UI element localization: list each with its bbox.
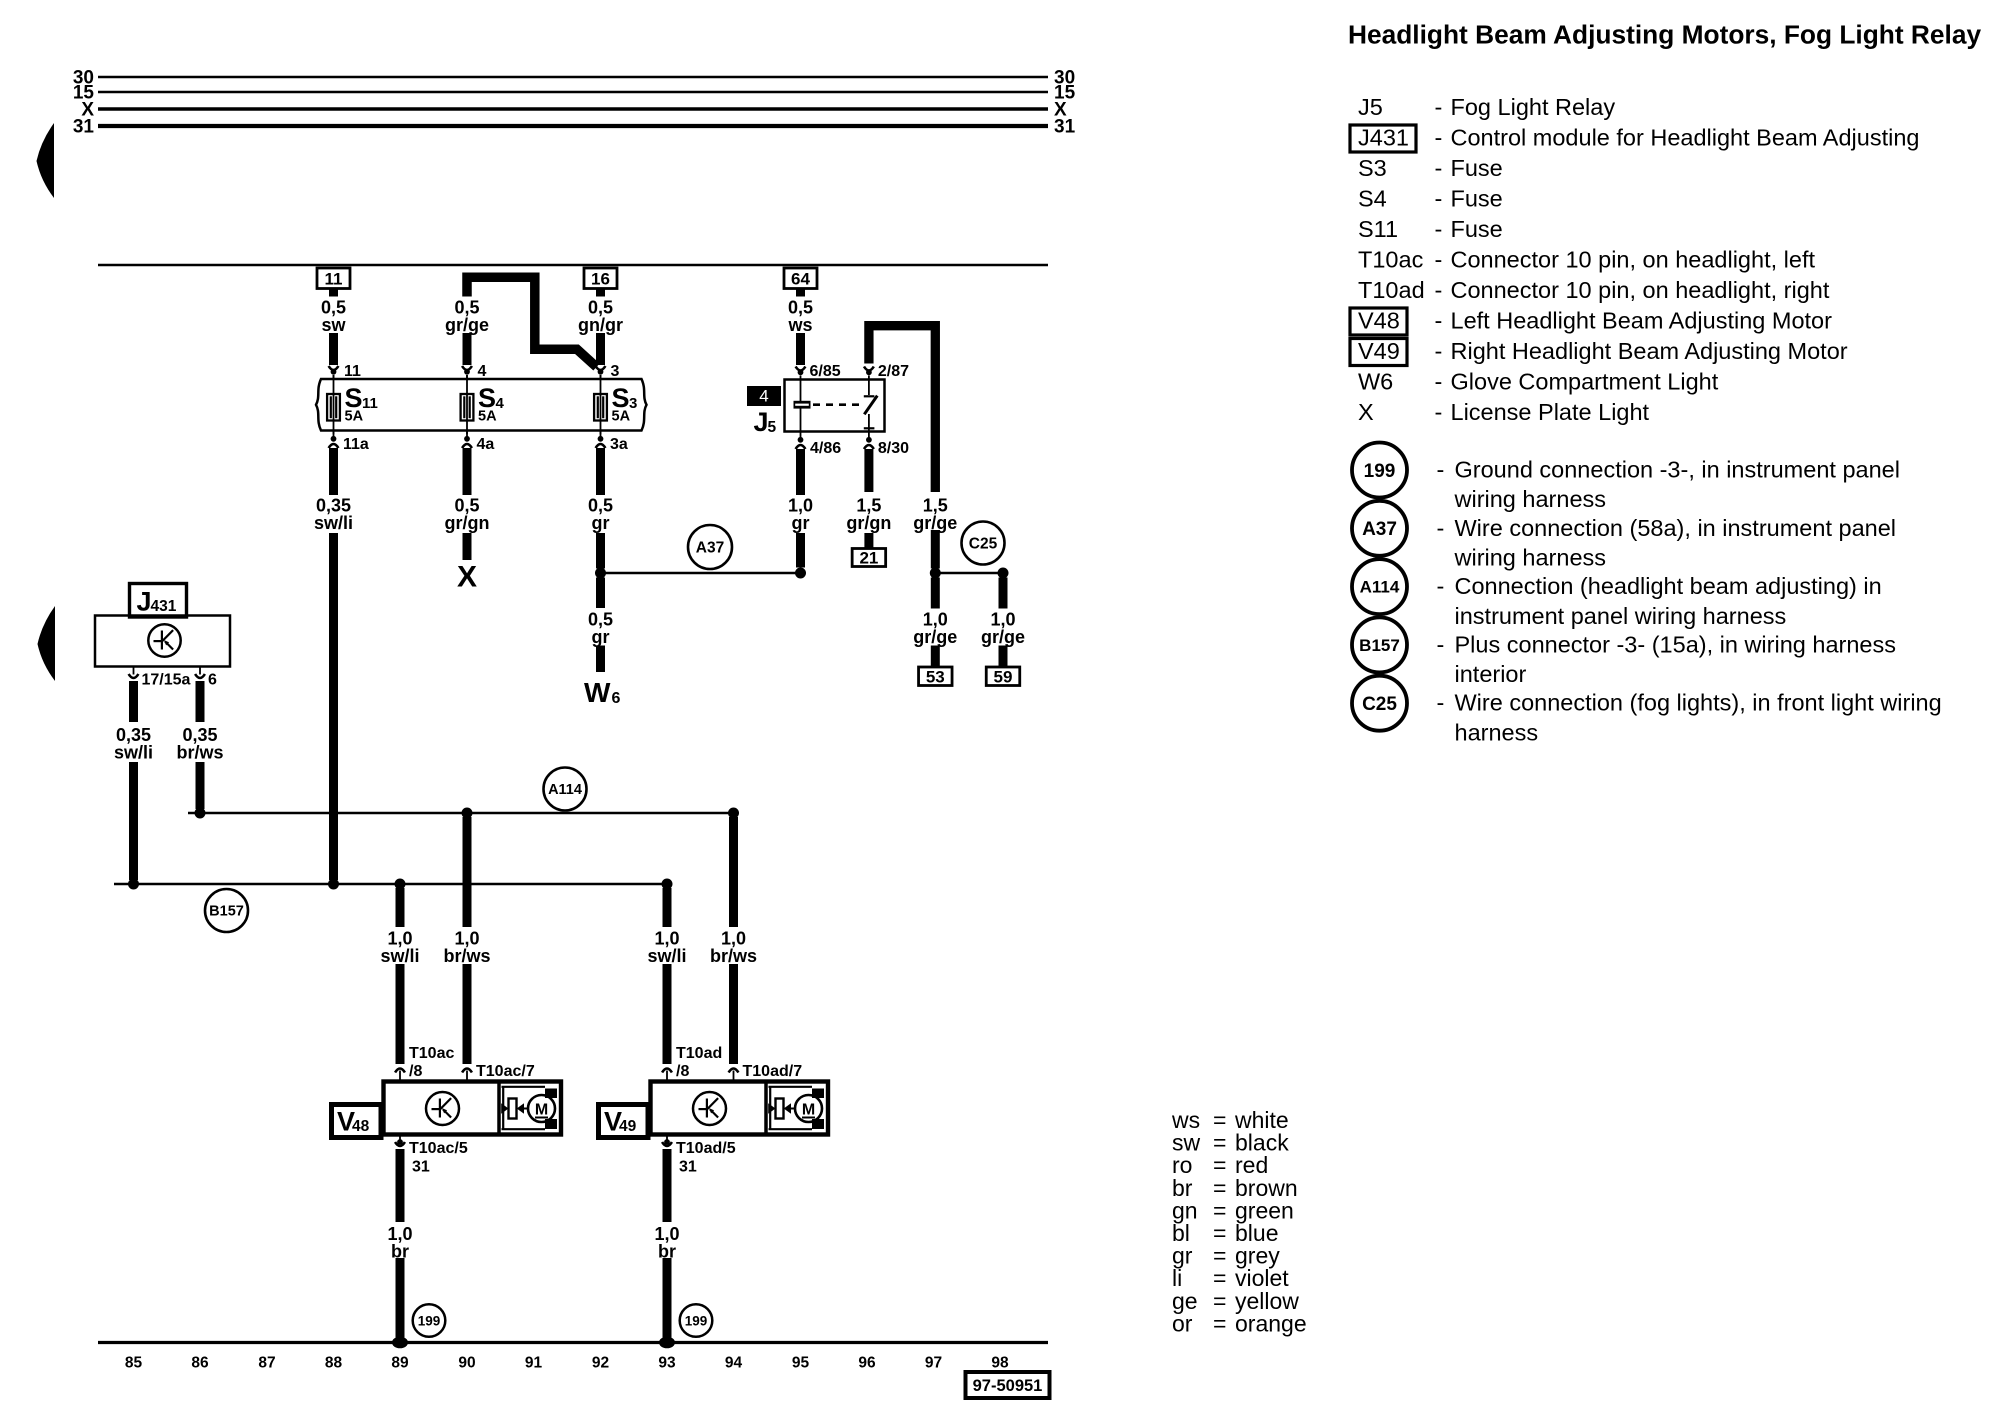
svg-text:S4: S4 bbox=[1358, 186, 1387, 212]
svg-text:89: 89 bbox=[391, 1355, 409, 1372]
svg-text:Wire connection (fog lights),: Wire connection (fog lights), in front l… bbox=[1455, 690, 1942, 716]
svg-text:gr/ge: gr/ge bbox=[981, 627, 1025, 647]
svg-text:S11: S11 bbox=[1358, 216, 1398, 242]
continuation arrow top-left bbox=[37, 123, 55, 198]
wire 0,5 gr/ge with branch to terminal 3 bbox=[467, 277, 597, 367]
svg-text:ws: ws bbox=[787, 315, 812, 335]
terminal 6/85 bbox=[796, 367, 806, 371]
svg-text:64: 64 bbox=[791, 269, 810, 288]
svg-text:11: 11 bbox=[325, 269, 343, 288]
svg-text:199: 199 bbox=[418, 1313, 441, 1328]
terminal 2/87 bbox=[864, 367, 874, 371]
svg-text:Plus connector -3- (15a), in w: Plus connector -3- (15a), in wiring harn… bbox=[1455, 631, 1896, 657]
svg-text:T10ac/7: T10ac/7 bbox=[476, 1063, 535, 1080]
plus connector B157 line bbox=[114, 883, 668, 885]
svg-text:-: - bbox=[1435, 155, 1443, 181]
svg-text:-: - bbox=[1437, 457, 1445, 483]
wire 1,0 sw/li to T10ac/8 bbox=[396, 888, 405, 927]
ground node col for V49 bbox=[659, 1337, 675, 1349]
svg-text:sw: sw bbox=[321, 315, 346, 335]
svg-text:53: 53 bbox=[926, 667, 945, 686]
connector 64 bbox=[784, 268, 817, 289]
svg-text:License Plate Light: License Plate Light bbox=[1451, 399, 1650, 425]
node on wire gr at A37 line bbox=[595, 568, 606, 579]
svg-text:11a: 11a bbox=[343, 436, 369, 453]
svg-text:T10ad: T10ad bbox=[1358, 277, 1425, 303]
wire 0,5 gr to W6 bbox=[596, 578, 605, 609]
svg-text:gr: gr bbox=[592, 513, 610, 533]
svg-text:5A: 5A bbox=[612, 409, 631, 425]
ground connection 199 left circle bbox=[413, 1304, 446, 1337]
svg-text:S3: S3 bbox=[1358, 155, 1387, 181]
svg-text:J431: J431 bbox=[1358, 125, 1409, 151]
motor V48 M symbol bbox=[528, 1095, 555, 1122]
terminal T10ad/5 of V49 bbox=[666, 1135, 668, 1143]
wire connection C25 line bbox=[935, 572, 1003, 574]
svg-text:wiring harness: wiring harness bbox=[1454, 486, 1607, 512]
connection A114 circle bbox=[544, 768, 587, 811]
wire 1,0 gr/ge to 59 bbox=[999, 578, 1008, 609]
svg-text:Control module for Headlight B: Control module for Headlight Beam Adjust… bbox=[1451, 125, 1920, 151]
wire connection A37 circle bbox=[688, 525, 732, 569]
relay J5 box bbox=[785, 380, 885, 432]
svg-text:Wire connection (58a), in inst: Wire connection (58a), in instrument pan… bbox=[1455, 515, 1897, 541]
svg-text:3: 3 bbox=[611, 363, 620, 380]
svg-text:21: 21 bbox=[859, 549, 878, 568]
svg-text:br/ws: br/ws bbox=[710, 946, 757, 966]
svg-text:8/30: 8/30 bbox=[878, 440, 909, 457]
bus bar terminal 15 bbox=[98, 91, 1048, 94]
svg-text:31: 31 bbox=[73, 117, 95, 138]
terminal T10ac/7 of V48 bbox=[462, 1069, 472, 1073]
terminal 11 of fuse S11 bbox=[329, 366, 339, 370]
svg-text:-: - bbox=[1435, 186, 1443, 212]
svg-text:2/87: 2/87 bbox=[878, 363, 909, 380]
wire 0,35 br/ws from J431 bbox=[196, 681, 205, 722]
node A114 at col 94 bbox=[728, 808, 739, 819]
svg-text:59: 59 bbox=[994, 667, 1013, 686]
svg-text:-: - bbox=[1435, 94, 1443, 120]
svg-text:5A: 5A bbox=[478, 409, 497, 425]
svg-text:86: 86 bbox=[191, 1355, 209, 1372]
svg-text:94: 94 bbox=[725, 1355, 743, 1372]
svg-text:wiring harness: wiring harness bbox=[1454, 545, 1607, 571]
wire 1,0 gr/ge to 53 bbox=[931, 578, 940, 609]
fuse box outline bbox=[316, 379, 647, 431]
svg-text:V49: V49 bbox=[1358, 338, 1400, 364]
svg-text:J: J bbox=[137, 587, 152, 617]
svg-text:instrument panel wiring harnes: instrument panel wiring harness bbox=[1455, 603, 1787, 629]
svg-text:-: - bbox=[1435, 308, 1443, 334]
svg-text:B157: B157 bbox=[209, 904, 244, 920]
legend connection circles list bbox=[1352, 443, 1407, 498]
terminal 3a bbox=[600, 431, 602, 437]
connection A114 line bbox=[188, 812, 734, 814]
relay J5 black tag 4 bbox=[747, 386, 781, 406]
motor V49 box bbox=[651, 1082, 829, 1135]
svg-text:Fuse: Fuse bbox=[1451, 216, 1503, 242]
svg-text:4a: 4a bbox=[477, 436, 495, 453]
svg-text:4: 4 bbox=[759, 387, 768, 406]
node B157 at col 93 bbox=[662, 879, 673, 890]
svg-text:Fuse: Fuse bbox=[1451, 186, 1503, 212]
svg-text:88: 88 bbox=[325, 1355, 343, 1372]
wire 0,35 sw/li from J431 bbox=[129, 681, 138, 722]
svg-text:6/85: 6/85 bbox=[810, 363, 841, 380]
connector 11 bbox=[317, 268, 350, 289]
svg-text:199: 199 bbox=[685, 1313, 708, 1328]
svg-text:sw/li: sw/li bbox=[314, 513, 353, 533]
svg-text:gr: gr bbox=[592, 627, 610, 647]
svg-text:199: 199 bbox=[1364, 461, 1396, 482]
svg-text:M: M bbox=[802, 1101, 815, 1118]
svg-text:gr: gr bbox=[792, 513, 810, 533]
svg-text:T10ac: T10ac bbox=[409, 1045, 454, 1062]
plus connector B157 circle bbox=[205, 889, 248, 932]
svg-text:Right Headlight Beam Adjusting: Right Headlight Beam Adjusting Motor bbox=[1451, 338, 1848, 364]
ground connection 199 right circle bbox=[680, 1304, 713, 1337]
motor V49 label box bbox=[599, 1105, 649, 1138]
svg-text:4: 4 bbox=[496, 395, 505, 412]
motor V48 label box bbox=[332, 1105, 382, 1138]
wire connection A37 line bbox=[601, 572, 801, 574]
svg-text:J: J bbox=[754, 407, 769, 437]
svg-text:A37: A37 bbox=[696, 540, 724, 557]
svg-text:-: - bbox=[1435, 277, 1443, 303]
connector 59 bbox=[986, 667, 1020, 686]
svg-text:87: 87 bbox=[258, 1355, 275, 1372]
control module J431 K symbol bbox=[148, 624, 180, 656]
bus bar terminal 30 bbox=[98, 76, 1048, 79]
top rail line bbox=[98, 264, 1048, 267]
node A114 at col 90 bbox=[462, 808, 473, 819]
node C25 right bbox=[998, 568, 1009, 579]
control module J431 label box bbox=[130, 584, 187, 618]
node sw/li 11a on B157 bbox=[328, 879, 339, 890]
wire 1,0 br ground from V49 bbox=[663, 1149, 672, 1222]
terminal T10ac/8 of V48 bbox=[395, 1069, 405, 1073]
terminal 4 of fuse S4 bbox=[462, 366, 472, 370]
svg-text:3: 3 bbox=[629, 395, 637, 412]
svg-text:90: 90 bbox=[458, 1355, 475, 1372]
svg-text:or: or bbox=[1172, 1310, 1193, 1336]
svg-text:T10ac/5: T10ac/5 bbox=[409, 1140, 468, 1157]
svg-text:Connector 10 pin, on headlight: Connector 10 pin, on headlight, right bbox=[1451, 277, 1830, 303]
continuation arrow mid-left bbox=[38, 606, 56, 681]
wire 1,5 gr/ge from 2/87 elbow bbox=[869, 326, 935, 492]
svg-text:=: = bbox=[1213, 1310, 1226, 1336]
wire 1,0 br/ws to T10ad/7 bbox=[729, 817, 738, 927]
svg-text:gr/gn: gr/gn bbox=[445, 513, 490, 533]
svg-text:X: X bbox=[457, 561, 477, 594]
svg-text:gr/gn: gr/gn bbox=[846, 513, 891, 533]
terminal 6 of J431 bbox=[199, 667, 201, 675]
svg-text:17/15a: 17/15a bbox=[142, 672, 191, 689]
svg-text:A114: A114 bbox=[1360, 578, 1400, 597]
svg-text:3a: 3a bbox=[610, 436, 628, 453]
bus bar terminal X bbox=[98, 107, 1048, 111]
svg-text:11: 11 bbox=[362, 395, 378, 412]
bus bar terminal 31 bbox=[98, 124, 1048, 128]
fuse S3 bbox=[600, 375, 602, 434]
fuse S4 bbox=[466, 375, 468, 434]
svg-text:-: - bbox=[1437, 690, 1445, 716]
svg-text:br/ws: br/ws bbox=[443, 946, 490, 966]
svg-text:6: 6 bbox=[612, 690, 621, 707]
diagram number box 97-50951 bbox=[966, 1372, 1050, 1398]
svg-text:91: 91 bbox=[525, 1355, 543, 1372]
motor V49 K symbol bbox=[693, 1092, 726, 1125]
svg-text:/8: /8 bbox=[676, 1063, 689, 1080]
svg-text:97-50951: 97-50951 bbox=[973, 1377, 1043, 1395]
svg-text:Glove Compartment Light: Glove Compartment Light bbox=[1451, 369, 1719, 395]
relay J5 switch contact bbox=[868, 380, 870, 396]
terminal T10ad/8 of V49 bbox=[662, 1069, 672, 1073]
svg-text:J5: J5 bbox=[1358, 94, 1383, 120]
svg-text:11: 11 bbox=[344, 363, 361, 380]
svg-text:sw/li: sw/li bbox=[380, 946, 419, 966]
svg-text:31: 31 bbox=[412, 1159, 430, 1176]
relay J5 coil bbox=[800, 380, 802, 432]
svg-text:/8: /8 bbox=[409, 1063, 422, 1080]
svg-text:98: 98 bbox=[991, 1355, 1009, 1372]
svg-text:T10ad/5: T10ad/5 bbox=[676, 1140, 736, 1157]
motor V48 positioner bbox=[502, 1087, 546, 1129]
svg-text:-: - bbox=[1437, 631, 1445, 657]
motor V49 M symbol bbox=[795, 1095, 822, 1122]
wire 0,5 gr/gn from 4a to X bbox=[463, 448, 472, 495]
svg-text:31: 31 bbox=[1054, 117, 1076, 138]
wire 1,0 br ground from V48 bbox=[396, 1149, 405, 1222]
svg-text:br/ws: br/ws bbox=[176, 743, 223, 763]
svg-text:X: X bbox=[1358, 399, 1374, 425]
fuse S11 bbox=[333, 375, 335, 434]
svg-text:sw/li: sw/li bbox=[114, 743, 153, 763]
wire 1,0 br/ws to T10ac/7 bbox=[463, 817, 472, 927]
control module J431 box bbox=[95, 616, 230, 667]
wire 1,5 gr/gn from 8/30 bbox=[864, 449, 873, 492]
terminal 4/86 bbox=[800, 432, 802, 438]
svg-text:-: - bbox=[1435, 247, 1443, 273]
svg-text:A37: A37 bbox=[1362, 519, 1397, 540]
svg-text:W6: W6 bbox=[1358, 369, 1393, 395]
ground node col for V48 bbox=[392, 1337, 408, 1349]
terminal T10ad/7 of V49 bbox=[729, 1069, 739, 1073]
motor V49 positioner bbox=[769, 1087, 813, 1129]
svg-text:gr/ge: gr/ge bbox=[913, 627, 957, 647]
svg-text:Connector 10 pin, on headlight: Connector 10 pin, on headlight, left bbox=[1451, 247, 1816, 273]
wire 1,0 gr from 4/86 bbox=[796, 449, 805, 495]
svg-text:92: 92 bbox=[592, 1355, 609, 1372]
svg-text:M: M bbox=[535, 1101, 548, 1118]
svg-text:5: 5 bbox=[768, 419, 777, 436]
svg-text:97: 97 bbox=[925, 1355, 942, 1372]
svg-text:Headlight Beam Adjusting Motor: Headlight Beam Adjusting Motors, Fog Lig… bbox=[1348, 20, 1981, 50]
svg-text:C25: C25 bbox=[969, 536, 998, 553]
terminal T10ac/5 of V48 bbox=[399, 1135, 401, 1143]
node br/ws on A114 bbox=[195, 808, 206, 819]
svg-text:harness: harness bbox=[1455, 719, 1539, 745]
svg-text:96: 96 bbox=[858, 1355, 876, 1372]
node gr/ge at C25 line bbox=[930, 568, 941, 579]
svg-text:-: - bbox=[1435, 216, 1443, 242]
svg-text:Connection (headlight beam adj: Connection (headlight beam adjusting) in bbox=[1455, 573, 1882, 599]
terminal 17/15a of J431 bbox=[133, 667, 135, 675]
svg-text:48: 48 bbox=[352, 1118, 370, 1135]
relay J5 dashed link bbox=[813, 403, 862, 406]
svg-text:85: 85 bbox=[125, 1355, 143, 1372]
terminal 4a bbox=[466, 431, 468, 437]
terminal 11a bbox=[333, 431, 335, 437]
svg-text:-: - bbox=[1435, 399, 1443, 425]
svg-text:A114: A114 bbox=[548, 782, 582, 798]
svg-text:T10ad/7: T10ad/7 bbox=[743, 1063, 803, 1080]
svg-text:31: 31 bbox=[679, 1159, 697, 1176]
svg-text:4/86: 4/86 bbox=[810, 440, 841, 457]
terminal 3 of fuse S3 bbox=[596, 366, 606, 370]
svg-text:gn/gr: gn/gr bbox=[578, 315, 623, 335]
svg-text:sw/li: sw/li bbox=[647, 946, 686, 966]
svg-text:5A: 5A bbox=[345, 409, 364, 425]
node end of gr wire on A37 line bbox=[795, 568, 806, 579]
wire 0,5 gr from 3a bbox=[596, 448, 605, 495]
motor V48 K symbol bbox=[426, 1092, 459, 1125]
wire 0,35 sw/li from 11a bbox=[329, 448, 338, 495]
svg-text:T10ad: T10ad bbox=[676, 1045, 722, 1062]
svg-text:-: - bbox=[1437, 515, 1445, 541]
svg-text:W: W bbox=[584, 677, 611, 708]
svg-text:Left Headlight Beam Adjusting: Left Headlight Beam Adjusting Motor bbox=[1451, 308, 1833, 334]
svg-text:49: 49 bbox=[619, 1118, 637, 1135]
svg-text:Ground connection -3-, in inst: Ground connection -3-, in instrument pan… bbox=[1455, 457, 1900, 483]
svg-text:T10ac: T10ac bbox=[1358, 247, 1424, 273]
svg-text:C25: C25 bbox=[1362, 694, 1397, 715]
svg-text:6: 6 bbox=[208, 672, 217, 689]
svg-text:93: 93 bbox=[658, 1355, 676, 1372]
ground rail line bbox=[98, 1341, 1048, 1344]
svg-text:V48: V48 bbox=[1358, 308, 1400, 334]
svg-text:16: 16 bbox=[591, 269, 610, 288]
connector 16 bbox=[584, 268, 617, 289]
wire 1,0 sw/li to T10ad/8 bbox=[663, 888, 672, 927]
svg-text:4: 4 bbox=[478, 363, 487, 380]
svg-text:95: 95 bbox=[792, 1355, 810, 1372]
svg-text:gr/ge: gr/ge bbox=[445, 315, 489, 335]
svg-text:-: - bbox=[1435, 338, 1443, 364]
node B157 at col 89 bbox=[395, 879, 406, 890]
svg-text:-: - bbox=[1435, 369, 1443, 395]
svg-text:interior: interior bbox=[1455, 661, 1527, 687]
svg-text:-: - bbox=[1435, 125, 1443, 151]
svg-text:orange: orange bbox=[1235, 1310, 1307, 1336]
motor V48 box bbox=[384, 1082, 562, 1135]
wire connection C25 circle bbox=[962, 522, 1005, 565]
svg-text:B157: B157 bbox=[1359, 636, 1400, 655]
svg-text:431: 431 bbox=[151, 598, 177, 615]
connector 53 bbox=[919, 667, 953, 686]
svg-text:-: - bbox=[1437, 573, 1445, 599]
connector 21 bbox=[852, 549, 886, 567]
svg-text:Fog Light Relay: Fog Light Relay bbox=[1451, 94, 1616, 120]
node sw/li 17-15a on B157 bbox=[128, 879, 139, 890]
terminal 8/30 bbox=[868, 432, 870, 438]
svg-text:Fuse: Fuse bbox=[1451, 155, 1503, 181]
